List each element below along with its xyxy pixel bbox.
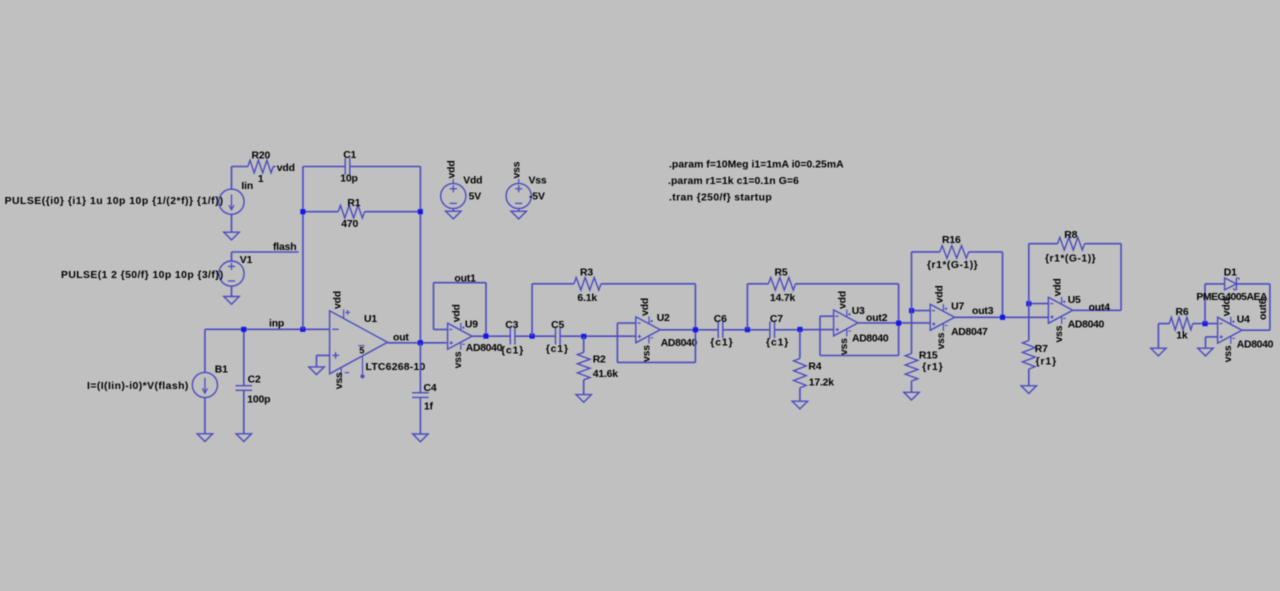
svg-text:C7: C7 xyxy=(770,314,783,325)
wire R6 to U4 xyxy=(1193,323,1218,325)
resistor R2 xyxy=(577,336,618,394)
U5 value xyxy=(1068,320,1105,331)
ground (Vss) xyxy=(511,211,526,219)
svg-text:{c1}: {c1} xyxy=(546,344,569,355)
ground (C4) xyxy=(413,434,428,442)
junction U7 out/R16 xyxy=(1000,315,1005,320)
wire B1 top to inp xyxy=(204,329,206,372)
Vss refdes xyxy=(529,176,547,187)
wire C6-C7 xyxy=(723,329,770,331)
wire R3 left leg xyxy=(532,284,574,336)
svg-text:{c1}: {c1} xyxy=(710,337,733,348)
svg-text:vss: vss xyxy=(1223,345,1234,362)
resistor R16 xyxy=(927,235,978,271)
wire U9 feedback xyxy=(434,283,487,337)
U5 refdes xyxy=(1068,295,1081,306)
U7 vdd label xyxy=(934,285,945,303)
wire U9 out xyxy=(472,335,510,337)
net label out6 xyxy=(1258,298,1269,320)
U2 refdes xyxy=(657,313,670,324)
junction U5 minus/R8/R7 xyxy=(1026,301,1031,306)
resistor R15 xyxy=(905,311,943,393)
svg-text:LTC6268-10: LTC6268-10 xyxy=(366,362,426,373)
U2 vss label xyxy=(641,345,652,362)
wire Iin bottom xyxy=(231,214,233,232)
U3 refdes xyxy=(852,306,865,317)
op-amp U7 xyxy=(930,304,954,331)
junction U9 out xyxy=(483,334,488,339)
svg-text:1f: 1f xyxy=(424,402,434,413)
wire C5 to U2 xyxy=(560,335,636,337)
D1 refdes xyxy=(1224,268,1237,279)
svg-text:Vdd: Vdd xyxy=(463,176,482,187)
svg-text:D1: D1 xyxy=(1224,268,1237,279)
svg-text:vdd: vdd xyxy=(640,298,651,316)
junction C3/C5/R3 xyxy=(530,334,535,339)
capacitor C1 xyxy=(303,150,421,184)
junction C7/R4 xyxy=(797,327,802,332)
svg-text:AD8040: AD8040 xyxy=(1068,320,1105,331)
svg-text:R2: R2 xyxy=(593,355,606,366)
net label out xyxy=(393,332,409,343)
svg-text:R1: R1 xyxy=(347,198,360,209)
svg-text:vdd: vdd xyxy=(452,304,463,322)
Vss pin label xyxy=(512,161,523,178)
ground (R2) xyxy=(576,395,591,403)
svg-text:I=(I(Iin)-i0)*V(flash): I=(I(Iin)-i0)*V(flash) xyxy=(87,381,189,392)
net label out1 xyxy=(454,274,476,285)
U3 vdd label xyxy=(838,291,849,309)
wire U2 feedback box xyxy=(617,323,695,362)
svg-text:U1: U1 xyxy=(364,314,377,325)
U4 refdes xyxy=(1237,314,1250,325)
U4 vss label xyxy=(1223,345,1234,362)
diode D1 xyxy=(1225,278,1239,290)
svg-text:Vss: Vss xyxy=(529,176,547,187)
junction R1 left xyxy=(300,209,305,214)
svg-text:U5: U5 xyxy=(1068,295,1081,306)
resistor R5 xyxy=(769,268,796,304)
U1 + input ground wire xyxy=(317,355,330,367)
U1 vdd pin label xyxy=(333,291,344,309)
wire R8 right leg xyxy=(1085,244,1122,311)
Vdd refdes xyxy=(463,176,482,187)
svg-text:{r1}: {r1} xyxy=(922,362,944,373)
svg-text:vss: vss xyxy=(453,351,464,368)
U4 vdd label xyxy=(1222,298,1233,316)
wire V1 top to flash xyxy=(232,252,299,261)
svg-text:U7: U7 xyxy=(951,302,964,313)
voltage source Vss xyxy=(506,179,531,209)
svg-text:470: 470 xyxy=(341,219,358,230)
svg-text:vss: vss xyxy=(839,338,850,355)
svg-text:C3: C3 xyxy=(505,320,518,331)
wire D1 to out corner xyxy=(1236,284,1270,330)
svg-text:C4: C4 xyxy=(424,383,437,394)
ground (R15) xyxy=(904,392,919,400)
ground (C2) xyxy=(236,434,251,442)
svg-text:{r1}: {r1} xyxy=(1036,356,1058,367)
svg-text:C1: C1 xyxy=(343,150,356,161)
capacitor C7 xyxy=(766,314,789,349)
svg-text:PULSE({i0} {i1} 1u 10p 10p {1/: PULSE({i0} {i1} 1u 10p 10p {1/(2*f)} {1/… xyxy=(5,196,224,207)
wire Vss bottom xyxy=(518,209,520,212)
svg-text:.tran {250/f} startup: .tran {250/f} startup xyxy=(669,193,772,204)
U1 shutdown label 5 xyxy=(359,346,364,356)
svg-text:5V: 5V xyxy=(469,192,482,203)
op-amp U9 xyxy=(448,323,472,350)
op-amp U4 xyxy=(1218,317,1242,344)
wire U3 feedback box xyxy=(820,316,899,355)
svg-text:{c1}: {c1} xyxy=(501,345,524,356)
svg-text:AD8040: AD8040 xyxy=(852,333,889,344)
wire feedback right vertical xyxy=(419,167,421,343)
wire U7 minus xyxy=(912,310,931,312)
current source Iin xyxy=(219,181,253,214)
Vss value xyxy=(529,192,545,203)
svg-text:5: 5 xyxy=(359,346,364,356)
svg-text:1k: 1k xyxy=(1176,330,1188,341)
wire R5 right leg xyxy=(796,284,899,323)
svg-text:vss: vss xyxy=(1054,325,1065,342)
ground (V1) xyxy=(224,297,239,305)
svg-text:R7: R7 xyxy=(1035,344,1048,355)
U9 value xyxy=(466,343,503,354)
junction inp/feedback xyxy=(300,327,305,332)
directive .tran xyxy=(669,193,772,204)
text PULSE for V1 xyxy=(61,270,224,281)
net label out3 xyxy=(972,306,994,317)
ground (Vdd) xyxy=(446,211,461,219)
wire R6 left xyxy=(1158,324,1169,349)
svg-text:C6: C6 xyxy=(714,314,727,325)
wire U4 out xyxy=(1242,329,1270,331)
svg-text:AD8047: AD8047 xyxy=(951,327,988,338)
directive .param 2 xyxy=(668,176,799,187)
U9 vss label xyxy=(453,351,464,368)
svg-text:.param f=10Meg i1=1mA i0=0.25m: .param f=10Meg i1=1mA i0=0.25mA xyxy=(669,159,844,170)
svg-text:inp: inp xyxy=(269,318,284,329)
wire inp xyxy=(205,328,330,330)
U5 vdd label xyxy=(1053,278,1064,296)
svg-text:R15: R15 xyxy=(919,350,938,361)
svg-text:vdd: vdd xyxy=(333,291,344,309)
U1 value xyxy=(366,362,426,373)
svg-text:10p: 10p xyxy=(340,174,357,185)
wire C3-C5 xyxy=(515,335,556,337)
U9 refdes xyxy=(465,320,478,331)
svg-text:Iin: Iin xyxy=(241,181,253,192)
svg-text:out2: out2 xyxy=(866,313,888,324)
svg-text:-5V: -5V xyxy=(529,192,545,203)
svg-text:1: 1 xyxy=(258,174,264,185)
U7 refdes xyxy=(951,302,964,313)
wire R8 left leg xyxy=(1029,244,1058,304)
voltage source V1 xyxy=(219,255,253,286)
svg-text:B1: B1 xyxy=(215,365,228,376)
svg-text:AD8040: AD8040 xyxy=(466,343,503,354)
op-amp U1 LTC6268-10 xyxy=(330,309,388,379)
U4 value xyxy=(1237,340,1274,351)
svg-text:U3: U3 xyxy=(852,306,865,317)
svg-text:U9: U9 xyxy=(465,320,478,331)
junction R1 right xyxy=(418,209,423,214)
svg-text:flash: flash xyxy=(273,242,297,253)
U2 value xyxy=(661,338,698,349)
svg-text:17.2k: 17.2k xyxy=(809,377,835,388)
junction U3 out xyxy=(896,321,901,326)
net label inp xyxy=(269,318,284,329)
svg-text:{r1*(G-1)}: {r1*(G-1)} xyxy=(1045,253,1096,264)
junction C6/C7/R5 xyxy=(745,327,750,332)
wire U3 out (out2) xyxy=(858,322,930,324)
U5 vss label xyxy=(1054,325,1065,342)
wire U7 out (out3) xyxy=(955,316,1049,318)
capacitor C4 xyxy=(412,343,437,434)
capacitor C2 xyxy=(236,329,271,434)
junction inp/C2 xyxy=(241,327,246,332)
svg-text:14.7k: 14.7k xyxy=(770,293,796,304)
capacitor C5 xyxy=(546,320,569,355)
directive .param 1 xyxy=(669,159,844,170)
junction U7 minus/R16/R15 xyxy=(909,308,914,313)
wire V1 bottom xyxy=(231,286,233,296)
svg-text:vdd: vdd xyxy=(1053,278,1064,296)
wire U4 + ground xyxy=(1206,337,1218,348)
net label out4 xyxy=(1089,302,1111,313)
U1 refdes xyxy=(364,314,377,325)
U1 vss pin label xyxy=(334,372,345,389)
svg-text:41.6k: 41.6k xyxy=(593,369,619,380)
U7 vss label xyxy=(936,332,947,349)
wire feedback left vertical xyxy=(302,167,304,330)
wire R20 to vdd label xyxy=(273,166,275,168)
ground (U1 +input) xyxy=(309,367,324,375)
svg-text:out3: out3 xyxy=(972,306,994,317)
wire out xyxy=(388,342,447,344)
svg-text:.param r1=1k c1=0.1n G=6: .param r1=1k c1=0.1n G=6 xyxy=(668,176,799,187)
U2 vdd label xyxy=(640,298,651,316)
wire Vdd bottom xyxy=(452,209,454,212)
svg-text:vss: vss xyxy=(334,372,345,389)
op-amp U5 xyxy=(1048,297,1072,324)
resistor R6 xyxy=(1169,307,1192,341)
svg-text:V1: V1 xyxy=(240,255,253,266)
junction C5/R2 xyxy=(581,334,586,339)
ground (R6) xyxy=(1151,348,1166,356)
svg-text:vss: vss xyxy=(936,332,947,349)
ground (U4 +input) xyxy=(1198,348,1213,356)
D1 value xyxy=(1196,292,1268,303)
wire Iin top to R20 xyxy=(232,167,248,190)
wire U5 minus xyxy=(1029,303,1049,305)
svg-text:AD8040: AD8040 xyxy=(661,338,698,349)
U3 vss label xyxy=(839,338,850,355)
svg-text:vdd: vdd xyxy=(277,163,295,174)
behavioral source B1 xyxy=(192,365,228,398)
svg-text:{r1*(G-1)}: {r1*(G-1)} xyxy=(927,260,978,271)
wire U5 out (out4) xyxy=(1073,309,1121,311)
svg-text:vss: vss xyxy=(512,161,523,178)
ground (R7) xyxy=(1021,386,1036,394)
op-amp U2 xyxy=(636,316,660,343)
U3 value xyxy=(852,333,889,344)
Vdd pin label xyxy=(446,160,457,178)
ground (R4) xyxy=(792,401,807,409)
Vdd value xyxy=(469,192,482,203)
resistor R3 xyxy=(574,268,601,304)
svg-text:AD8040: AD8040 xyxy=(1237,340,1274,351)
svg-text:vdd: vdd xyxy=(934,285,945,303)
svg-text:C2: C2 xyxy=(248,375,261,386)
capacitor C3 xyxy=(501,320,524,356)
wire R16 right leg xyxy=(969,252,1003,317)
svg-text:out4: out4 xyxy=(1089,302,1111,313)
wire R5 left leg xyxy=(747,284,768,330)
net label out2 xyxy=(866,313,888,324)
capacitor C6 xyxy=(710,314,733,349)
resistor R4 xyxy=(794,330,835,402)
resistor R20 xyxy=(248,150,273,185)
wire U2 out xyxy=(660,329,718,331)
svg-text:R3: R3 xyxy=(580,268,593,279)
svg-text:{c1}: {c1} xyxy=(766,337,789,348)
svg-text:R20: R20 xyxy=(252,150,271,161)
ground (Iin) xyxy=(224,232,239,240)
svg-text:U4: U4 xyxy=(1237,314,1250,325)
svg-text:U2: U2 xyxy=(657,313,670,324)
voltage source Vdd xyxy=(441,179,466,209)
resistor R1 xyxy=(303,198,421,230)
wire C7 to U3 xyxy=(775,329,834,331)
op-amp U3 xyxy=(834,310,858,337)
junction R6/D1/U4 xyxy=(1203,321,1208,326)
svg-text:vdd: vdd xyxy=(446,160,457,178)
svg-text:C5: C5 xyxy=(551,320,564,331)
svg-text:100p: 100p xyxy=(247,394,270,405)
svg-text:R16: R16 xyxy=(942,235,961,246)
svg-text:PULSE(1 2 {50/f} 10p 10p {3/f}: PULSE(1 2 {50/f} 10p 10p {3/f}) xyxy=(61,270,224,281)
svg-text:vss: vss xyxy=(641,345,652,362)
wire B1 bottom xyxy=(204,398,206,434)
U7 value xyxy=(951,327,988,338)
wire R3 right leg xyxy=(601,284,695,330)
net label flash xyxy=(273,242,297,253)
resistor R8 xyxy=(1045,230,1096,264)
wire R16 left leg xyxy=(912,252,940,311)
svg-text:out: out xyxy=(393,332,409,343)
U9 vdd label xyxy=(452,304,463,322)
wire D1 branch up xyxy=(1205,284,1225,324)
svg-text:R5: R5 xyxy=(775,268,788,279)
net label vdd (R20) xyxy=(277,163,295,174)
svg-text:R8: R8 xyxy=(1064,230,1077,241)
svg-text:out6: out6 xyxy=(1258,298,1269,320)
svg-text:out1: out1 xyxy=(454,274,476,285)
ground (B1) xyxy=(197,434,212,442)
text B1 expression xyxy=(87,381,189,392)
svg-text:vdd: vdd xyxy=(838,291,849,309)
junction U2 out xyxy=(693,327,698,332)
svg-text:R4: R4 xyxy=(808,362,821,373)
svg-text:R6: R6 xyxy=(1176,307,1189,318)
junction out/C4 xyxy=(418,340,423,345)
svg-text:6.1k: 6.1k xyxy=(577,293,597,304)
resistor R7 xyxy=(1023,304,1058,386)
text PULSE for Iin xyxy=(5,196,224,207)
